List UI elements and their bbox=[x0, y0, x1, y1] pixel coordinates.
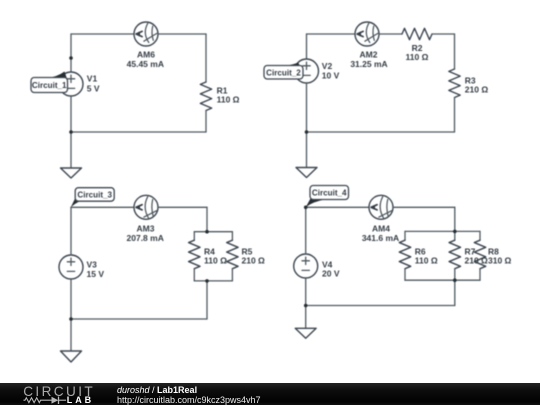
svg-text:Circuit_1: Circuit_1 bbox=[32, 81, 67, 90]
svg-text:207.8 mA: 207.8 mA bbox=[127, 233, 164, 243]
svg-text:110 Ω: 110 Ω bbox=[204, 256, 227, 266]
svg-text:AM6: AM6 bbox=[137, 49, 155, 59]
svg-text:10 V: 10 V bbox=[322, 71, 340, 81]
svg-text:341.6 mA: 341.6 mA bbox=[362, 233, 399, 243]
svg-text:AM2: AM2 bbox=[360, 49, 378, 59]
svg-text:110 Ω: 110 Ω bbox=[406, 52, 429, 62]
svg-text:31.25 mA: 31.25 mA bbox=[350, 59, 387, 69]
svg-text:AM3: AM3 bbox=[137, 223, 155, 233]
svg-text:Circuit_2: Circuit_2 bbox=[266, 68, 301, 77]
svg-text:LAB: LAB bbox=[67, 395, 94, 405]
svg-text:210 Ω: 210 Ω bbox=[465, 256, 489, 266]
svg-text:20 V: 20 V bbox=[322, 268, 340, 278]
svg-text:45.45 mA: 45.45 mA bbox=[127, 59, 164, 69]
svg-text:5 V: 5 V bbox=[87, 83, 100, 93]
svg-text:210 Ω: 210 Ω bbox=[242, 256, 266, 266]
svg-text:110 Ω: 110 Ω bbox=[415, 256, 438, 266]
svg-text:V1: V1 bbox=[87, 74, 98, 84]
svg-text:15 V: 15 V bbox=[87, 269, 105, 279]
svg-text:AM4: AM4 bbox=[372, 223, 390, 233]
svg-text:310 Ω: 310 Ω bbox=[488, 256, 512, 266]
svg-text:110 Ω: 110 Ω bbox=[217, 95, 240, 105]
svg-text:Circuit_3: Circuit_3 bbox=[77, 190, 112, 199]
svg-text:Circuit_4: Circuit_4 bbox=[312, 189, 347, 198]
svg-text:210 Ω: 210 Ω bbox=[465, 85, 489, 95]
